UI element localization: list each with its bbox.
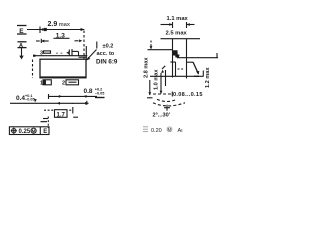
svg-text:M: M: [168, 127, 172, 132]
svg-text:E: E: [43, 129, 47, 135]
svg-text:2: 2: [62, 81, 65, 87]
svg-text:DIN 6:9: DIN 6:9: [96, 58, 118, 65]
svg-text:2°...30': 2°...30': [153, 113, 171, 119]
svg-text:1: 1: [40, 81, 43, 87]
svg-text:0.08...0.15: 0.08...0.15: [173, 92, 203, 98]
svg-text:Aı: Aı: [178, 128, 183, 134]
svg-text:0.4: 0.4: [16, 95, 25, 102]
svg-text:2.5 max: 2.5 max: [166, 30, 188, 36]
svg-text:−0.05: −0.05: [95, 91, 105, 95]
svg-text:±0.2: ±0.2: [103, 44, 114, 50]
svg-text:M: M: [32, 129, 36, 134]
svg-text:0.8: 0.8: [84, 88, 93, 95]
svg-text:1.0 max: 1.0 max: [154, 69, 160, 90]
svg-text:0.20: 0.20: [151, 128, 162, 134]
svg-text:−0.05: −0.05: [25, 98, 35, 102]
svg-text:1.1 max: 1.1 max: [167, 16, 189, 22]
svg-text:E: E: [19, 28, 24, 35]
svg-text:A: A: [19, 43, 23, 49]
svg-text:1.7: 1.7: [57, 113, 66, 119]
svg-text:1.2 max: 1.2 max: [205, 67, 211, 88]
svg-text:3: 3: [40, 51, 43, 57]
svg-text:2.8 max: 2.8 max: [144, 57, 150, 78]
svg-text:acc. to: acc. to: [97, 51, 115, 57]
svg-text:1.3: 1.3: [56, 32, 65, 39]
svg-text:0.25: 0.25: [19, 129, 31, 135]
svg-text:2.9 max: 2.9 max: [48, 21, 71, 28]
